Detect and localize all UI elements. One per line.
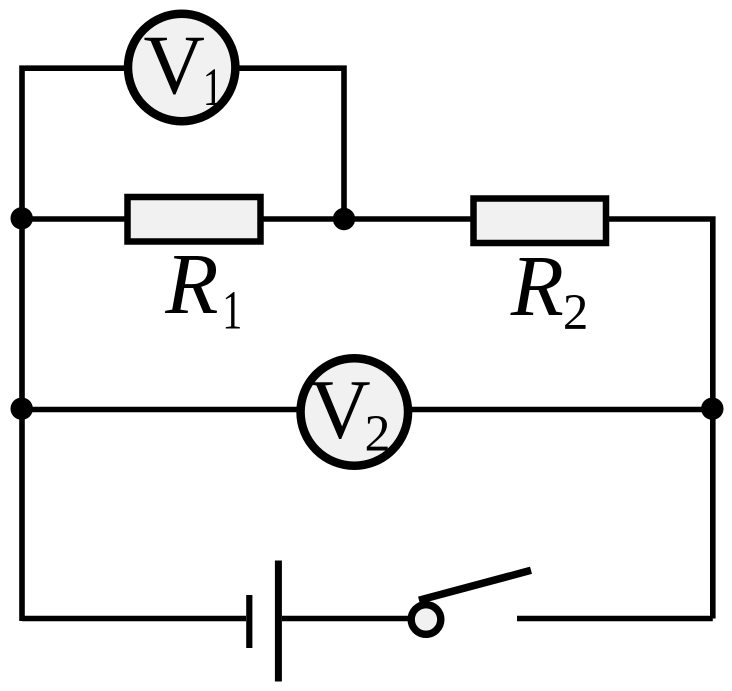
svg-text:V: V [309,362,370,456]
svg-text:2: 2 [365,405,391,462]
svg-text:R: R [510,237,564,334]
svg-text:R: R [164,235,218,332]
svg-text:2: 2 [563,285,589,341]
svg-text:1: 1 [203,57,223,117]
svg-text:1: 1 [222,280,242,341]
svg-text:V: V [144,18,205,112]
